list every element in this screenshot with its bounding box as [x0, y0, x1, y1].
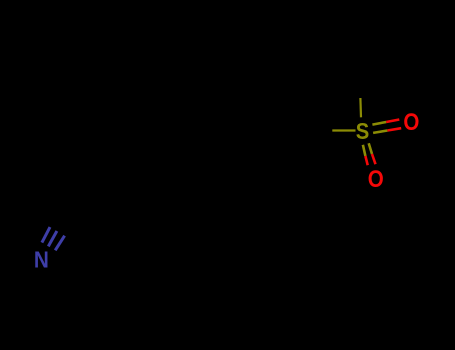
wire — [365, 156, 367, 165]
double bond S=O upper — [372, 120, 401, 133]
node S — [356, 118, 370, 144]
node O upper — [403, 109, 419, 136]
wire — [369, 143, 372, 154]
svg-text:O: O — [403, 109, 419, 136]
svg-text:N: N — [34, 247, 49, 273]
wire — [387, 128, 401, 130]
wire S-CH3 (olive half) — [359, 98, 362, 117]
double bond S=O lower — [363, 143, 376, 165]
triple bond C#N (blue halves) — [42, 227, 65, 250]
svg-text:O: O — [368, 166, 384, 193]
wire — [373, 131, 387, 133]
wire — [363, 145, 366, 156]
wire ring-S (olive half) — [332, 129, 355, 131]
node N — [34, 247, 49, 273]
wire — [55, 236, 64, 251]
wire — [48, 231, 57, 246]
wire — [386, 120, 399, 123]
wire — [372, 122, 386, 125]
wire — [372, 154, 376, 164]
wire — [42, 227, 50, 243]
node O lower — [368, 166, 384, 193]
svg-text:S: S — [356, 118, 370, 144]
